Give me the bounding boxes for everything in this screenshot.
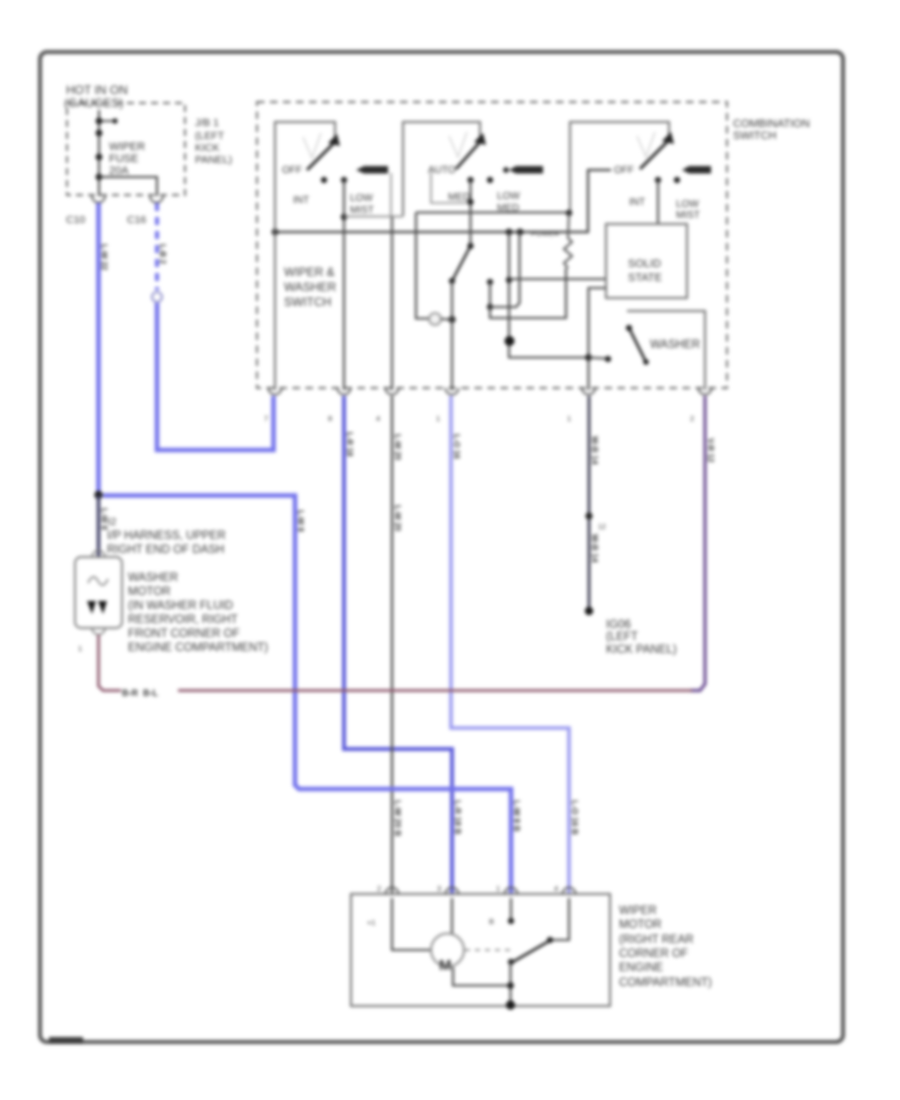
svg-text:INT: INT bbox=[629, 197, 645, 208]
svg-text:J/B 1: J/B 1 bbox=[195, 117, 219, 129]
wiper speed switch S2 arm bbox=[449, 132, 486, 169]
svg-text:MED: MED bbox=[448, 192, 470, 203]
node int contact bbox=[487, 279, 493, 310]
svg-text:OFF: OFF bbox=[282, 165, 302, 176]
contact INT S1 bbox=[321, 177, 327, 183]
svg-text:WIPER &: WIPER & bbox=[284, 265, 335, 279]
svg-text:LOW: LOW bbox=[676, 199, 699, 210]
svg-text:WIPER: WIPER bbox=[619, 905, 657, 917]
connector mark on ground wire bbox=[598, 524, 606, 531]
svg-text:PANEL): PANEL) bbox=[195, 154, 232, 166]
park switch contact A bbox=[508, 898, 514, 924]
terminal numbers of combination switch bbox=[264, 414, 694, 423]
svg-text:2: 2 bbox=[690, 414, 694, 423]
wire label violet (rotated) bbox=[706, 438, 715, 463]
svg-text:1: 1 bbox=[567, 414, 571, 423]
wire int loop left vertical bbox=[506, 232, 588, 358]
svg-text:FRONT CORNER OF: FRONT CORNER OF bbox=[128, 628, 240, 640]
label WIPER MOTOR description bbox=[619, 905, 712, 989]
wire label ground lower (rotated) bbox=[590, 534, 600, 563]
faint label on feed line bbox=[531, 229, 560, 238]
border corner mark bbox=[49, 1037, 83, 1044]
motor M symbol bbox=[431, 934, 464, 975]
svg-text:WASHER: WASHER bbox=[128, 572, 178, 584]
wire to solid state left input bbox=[509, 278, 606, 280]
svg-text:MOTOR: MOTOR bbox=[619, 919, 662, 931]
label WASHER MOTOR description bbox=[128, 572, 268, 654]
label LOW MIST S3 bbox=[676, 199, 700, 221]
wiper speed switch S2 box bbox=[403, 122, 480, 216]
wire blue splice to wiper motor pin bbox=[103, 496, 511, 895]
svg-text:KICK: KICK bbox=[195, 142, 220, 154]
connector C16 bbox=[127, 196, 163, 226]
connector C10 bbox=[66, 196, 105, 226]
svg-text:IG06: IG06 bbox=[606, 619, 631, 631]
washer switch S4 box bbox=[627, 311, 705, 390]
svg-text:WASHER: WASHER bbox=[650, 339, 700, 351]
svg-text:I/P HARNESS, UPPER: I/P HARNESS, UPPER bbox=[107, 530, 226, 542]
fuse WIPER FUSE 20A bbox=[96, 118, 146, 181]
splice node I2 bbox=[94, 491, 102, 499]
wire int lower link to resistor bbox=[490, 268, 566, 318]
svg-text:8: 8 bbox=[328, 414, 332, 423]
svg-text:1: 1 bbox=[496, 884, 500, 893]
svg-text:W-B 14: W-B 14 bbox=[590, 436, 600, 465]
svg-text:L-W 8: L-W 8 bbox=[296, 510, 305, 532]
svg-text:1: 1 bbox=[436, 414, 440, 423]
wire label L on C10 wire (rotated) bbox=[100, 244, 109, 271]
label COMBINATION SWITCH bbox=[733, 118, 810, 142]
svg-text:FUSE: FUSE bbox=[109, 153, 138, 165]
svg-text:+1: +1 bbox=[367, 918, 376, 927]
label I2 I/P HARNESS bbox=[107, 517, 226, 556]
svg-text:1: 1 bbox=[78, 644, 82, 653]
wire label splice branch (rotated) bbox=[296, 510, 305, 532]
svg-text:V-R 12: V-R 12 bbox=[706, 438, 715, 463]
wire pin4 gray to wiper motor bbox=[391, 396, 393, 894]
terminal number washer motor bbox=[78, 644, 82, 653]
wire label on C16 wire (rotated) bbox=[158, 244, 167, 265]
wire label pin1 (rotated) bbox=[452, 434, 461, 459]
wire dark blue splice to washer motor bbox=[97, 495, 100, 556]
wire label on maroon run bbox=[122, 688, 158, 698]
svg-text:WASHER: WASHER bbox=[284, 280, 337, 294]
washer switch S4 arm bbox=[626, 325, 649, 365]
washer pump symbol bbox=[87, 601, 107, 635]
svg-text:M: M bbox=[439, 957, 452, 974]
contact LOW S1 with wire to pin bbox=[341, 177, 347, 390]
wiper switch S1 box bbox=[275, 122, 335, 390]
wire L blue from C10 down to splice I2 bbox=[96, 203, 101, 495]
label ground IG06 LEFT KICK PANEL bbox=[606, 619, 677, 656]
high arrow S2 bbox=[503, 166, 543, 174]
svg-text:SOLID: SOLID bbox=[628, 258, 661, 270]
label OFF S1 bbox=[282, 165, 302, 176]
svg-text:B-R B-L: B-R B-L bbox=[122, 688, 158, 698]
wire relay feed horizontal bbox=[416, 210, 572, 216]
terminal bumps on combination switch bbox=[269, 388, 712, 395]
svg-text:L-W 8: L-W 8 bbox=[100, 508, 109, 530]
solid state module U1 bbox=[606, 224, 687, 298]
label INT S1 bbox=[293, 195, 309, 206]
mechanical link dashed bbox=[465, 949, 514, 951]
svg-text:L-W 20: L-W 20 bbox=[393, 434, 402, 461]
svg-text:ENGINE: ENGINE bbox=[619, 962, 663, 974]
wire L-B dashed from C16 to combination switch pin bbox=[152, 203, 274, 450]
svg-text:L-W 20 B: L-W 20 B bbox=[393, 800, 403, 836]
label WIPER & WASHER SWITCH bbox=[284, 265, 337, 309]
svg-text:MIST: MIST bbox=[350, 205, 374, 216]
int switch S3 box bbox=[570, 122, 669, 213]
svg-text:B: B bbox=[489, 917, 494, 926]
svg-text:12: 12 bbox=[598, 524, 606, 531]
svg-text:L-R 18 B: L-R 18 B bbox=[453, 800, 463, 834]
svg-text:L-W 20: L-W 20 bbox=[393, 505, 402, 532]
label J/B 1 (LEFT KICK PANEL) bbox=[195, 117, 232, 166]
svg-text:L-O 16: L-O 16 bbox=[452, 434, 461, 459]
label AUTO S2 bbox=[428, 165, 456, 176]
mist arrow S1 bbox=[356, 166, 388, 174]
label MED bracket S2 bbox=[431, 173, 470, 203]
svg-text:(LEFT: (LEFT bbox=[195, 130, 225, 142]
wire pin4 inside switch from mist bracket bbox=[391, 217, 393, 390]
wire int loop right vertical bbox=[490, 232, 520, 307]
wire label pin1 lower (rotated) bbox=[570, 800, 580, 835]
svg-text:4: 4 bbox=[376, 414, 380, 423]
svg-text:OFF: OFF bbox=[614, 165, 634, 176]
contact INT S3 wire to solid state bbox=[655, 177, 661, 224]
svg-text:(RIGHT REAR: (RIGHT REAR bbox=[619, 934, 694, 946]
wire washer feed bbox=[509, 354, 611, 362]
relay arm K1 bbox=[449, 243, 474, 390]
wire label pin4 lower (rotated) bbox=[393, 800, 403, 836]
wire fuse output branch to C16 bbox=[99, 177, 157, 196]
svg-text:LOW: LOW bbox=[350, 193, 373, 204]
svg-text:L-R 18: L-R 18 bbox=[345, 432, 354, 457]
svg-text:CORNER OF: CORNER OF bbox=[619, 948, 688, 960]
svg-text:2: 2 bbox=[377, 884, 381, 893]
label LOW MIST S1 bracket bbox=[344, 173, 403, 217]
wire label motor feed (rotated) bbox=[512, 800, 522, 832]
wire label pin4 (rotated) bbox=[393, 434, 402, 532]
wire solid state lower-left output bbox=[589, 288, 607, 390]
svg-text:WIPER: WIPER bbox=[109, 141, 145, 153]
wire label washer feed (rotated) bbox=[100, 508, 109, 530]
svg-text:POWER: POWER bbox=[531, 229, 560, 238]
contact open S3 bbox=[674, 177, 680, 183]
label OFF S3 bbox=[614, 165, 634, 176]
wire label pin8 lower (rotated) bbox=[453, 800, 463, 834]
wiper motor M2 box bbox=[351, 894, 610, 1006]
int switch S3 arm bbox=[637, 132, 674, 169]
washer motor coil arc bbox=[88, 577, 108, 585]
svg-text:C16: C16 bbox=[127, 214, 146, 226]
node B+ feed line across switch bbox=[272, 170, 611, 235]
svg-text:L-B 2: L-B 2 bbox=[158, 244, 167, 265]
svg-text:4: 4 bbox=[554, 884, 558, 893]
svg-text:3: 3 bbox=[437, 884, 441, 893]
label HOT IN ON bbox=[64, 83, 128, 110]
svg-text:L-W 22: L-W 22 bbox=[100, 244, 109, 271]
svg-text:MOTOR: MOTOR bbox=[128, 586, 171, 598]
label LOW MED S2 bbox=[497, 191, 520, 214]
svg-text:ENGINE COMPARTMENT): ENGINE COMPARTMENT) bbox=[128, 642, 268, 654]
svg-text:SWITCH: SWITCH bbox=[733, 130, 776, 142]
resistor R1 bbox=[564, 213, 572, 268]
svg-text:LOW: LOW bbox=[497, 191, 520, 202]
contact HIGH S2 open bbox=[487, 177, 493, 183]
combination switch dashed box bbox=[257, 102, 727, 388]
svg-text:W-B 14: W-B 14 bbox=[590, 534, 600, 563]
wire relay left leg bbox=[416, 213, 429, 319]
node relay pivot bbox=[441, 316, 456, 323]
wire pin8 to wiper motor blue bbox=[344, 396, 452, 894]
svg-text:COMPARTMENT): COMPARTMENT) bbox=[619, 977, 712, 989]
svg-text:AUTO: AUTO bbox=[428, 165, 456, 176]
wiper motor internal wiring bbox=[392, 898, 452, 950]
svg-text:COMBINATION: COMBINATION bbox=[733, 118, 810, 130]
wire label ground upper (rotated) bbox=[590, 436, 600, 465]
mist arrow S3 bbox=[682, 166, 711, 174]
svg-text:(LEFT: (LEFT bbox=[606, 631, 638, 643]
wire label pin8 (rotated) bbox=[345, 432, 354, 457]
terminal numbers wiper motor bbox=[367, 884, 558, 927]
wire violet pin2 to washer circuit bbox=[690, 396, 705, 691]
label INT S3 bbox=[629, 197, 645, 208]
svg-text:RESERVOIR, RIGHT: RESERVOIR, RIGHT bbox=[128, 614, 238, 626]
terminal bumps wiper motor bbox=[386, 888, 576, 894]
svg-text:RIGHT END OF DASH: RIGHT END OF DASH bbox=[107, 544, 224, 556]
svg-text:STATE: STATE bbox=[628, 272, 662, 284]
svg-text:L-W 8 B: L-W 8 B bbox=[512, 800, 522, 832]
svg-text:L-O 16 B: L-O 16 B bbox=[570, 800, 580, 835]
wire ground black from pin1b bbox=[585, 396, 593, 615]
svg-text:MIST: MIST bbox=[676, 210, 700, 221]
contact MED S2 wire down to relay arm bbox=[467, 177, 473, 246]
splice big dot bbox=[505, 336, 515, 346]
wire fuse feed inside J/B bbox=[99, 110, 114, 196]
park switch arm bbox=[508, 940, 551, 965]
svg-text:KICK PANEL): KICK PANEL) bbox=[606, 644, 677, 656]
svg-text:(IN WASHER FLUID: (IN WASHER FLUID bbox=[128, 600, 233, 612]
junction block J/B 1 dashed box bbox=[67, 103, 185, 195]
svg-text:C10: C10 bbox=[66, 214, 85, 226]
svg-text:20A: 20A bbox=[109, 165, 129, 177]
wire pin1 light blue to wiper motor bbox=[451, 396, 569, 894]
park switch contact B bbox=[547, 898, 569, 943]
svg-text:7: 7 bbox=[264, 414, 268, 423]
svg-text:HOT IN ON: HOT IN ON bbox=[66, 83, 128, 97]
wiper motor ground path bbox=[453, 962, 515, 1010]
wire washer motor return maroon bbox=[99, 635, 693, 691]
svg-text:SWITCH: SWITCH bbox=[284, 295, 331, 309]
wiper switch S1 arm bbox=[303, 133, 340, 170]
washer motor M1 box bbox=[75, 551, 122, 628]
connector ring on relay leg bbox=[429, 313, 441, 325]
svg-text:INT: INT bbox=[293, 195, 309, 206]
